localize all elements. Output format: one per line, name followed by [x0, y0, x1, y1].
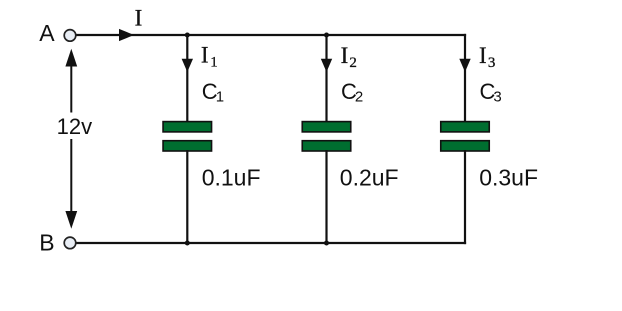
label C2: [341, 79, 363, 106]
svg-text:0.3uF: 0.3uF: [479, 165, 538, 191]
node B: [39, 230, 76, 256]
svg-text:0.1uF: 0.1uF: [202, 165, 261, 191]
svg-text:3: 3: [488, 55, 496, 71]
svg-text:2: 2: [349, 55, 357, 71]
wire C2 branch lower: [325, 150, 327, 243]
svg-text:I: I: [341, 43, 349, 68]
svg-text:I: I: [201, 43, 209, 68]
current arrow I1: [182, 43, 218, 72]
wire C3 branch lower: [464, 150, 466, 244]
current arrow I on top rail: [119, 6, 142, 41]
svg-text:1: 1: [216, 89, 224, 106]
junction top of C1 branch: [185, 33, 190, 38]
wire C2 branch upper: [325, 35, 327, 123]
label C1: [202, 79, 224, 105]
wire top rail A to C3 branch: [77, 34, 467, 36]
wire C1 branch lower: [186, 150, 188, 243]
svg-text:0.2uF: 0.2uF: [340, 165, 399, 191]
svg-text:12v: 12v: [57, 114, 92, 139]
label C3: [480, 79, 502, 106]
current arrow I2: [321, 43, 357, 72]
svg-text:1: 1: [210, 54, 218, 70]
svg-text:I: I: [479, 43, 487, 68]
wire C3 branch upper: [464, 34, 466, 123]
node A: [39, 20, 75, 46]
current arrow I3: [459, 43, 495, 72]
capacitor C2: [302, 122, 351, 151]
svg-text:2: 2: [355, 89, 363, 106]
capacitor C3: [441, 122, 490, 151]
svg-text:I: I: [135, 6, 143, 31]
capacitor C1: [163, 122, 212, 151]
svg-text:3: 3: [493, 89, 501, 106]
junction top of C2 branch: [324, 33, 329, 38]
wire bottom rail B to C3 branch: [77, 242, 467, 244]
wire C1 branch upper: [186, 35, 188, 123]
junction bottom of C2 branch: [324, 241, 329, 246]
svg-text:A: A: [39, 20, 55, 46]
svg-text:B: B: [39, 230, 54, 256]
junction bottom of C1 branch: [185, 241, 190, 246]
voltage source arrow 12v between A and B: [57, 49, 92, 229]
